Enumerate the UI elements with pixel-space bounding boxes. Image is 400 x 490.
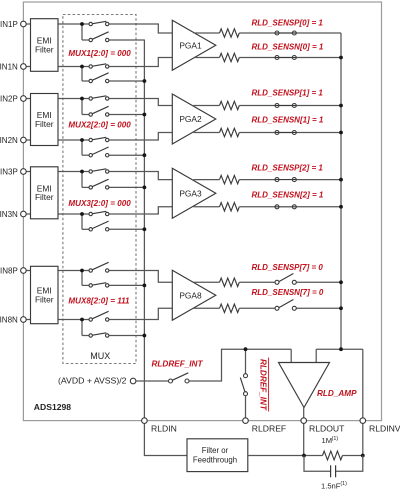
- op-amp PGA8: [172, 270, 216, 320]
- switch MUX3 N input (closed): [89, 211, 109, 215]
- wire RLDREF node to switch: [245, 349, 247, 374]
- wire EMI out N row channel 2: [58, 139, 90, 141]
- switch MUX3 P RLD (open): [89, 179, 109, 189]
- wire resistor to switch (SENSN1): [239, 57, 275, 59]
- Filter or Feedthrough box: [187, 439, 248, 472]
- op-amp PGA3: [172, 168, 216, 218]
- wire RLD P switch to RLDIN rail channel 3: [108, 186, 144, 188]
- resistor RLD_SENSP channel 8: [220, 278, 240, 286]
- switch RLDREF_INT (open): [169, 373, 190, 383]
- svg-text:RLDREF: RLDREF: [252, 424, 286, 434]
- switch RLD_SENSP[0] (closed): [275, 31, 297, 35]
- junction rail / MUX8 P RLD row: [143, 284, 147, 288]
- wire IN1N to EMI filter: [23, 66, 30, 68]
- wire RLD P switch to RLDIN rail channel 8: [108, 284, 144, 286]
- wire RLD_AMP output to RLDOUT pin: [303, 408, 305, 421]
- op-amp RLD_AMP: [279, 363, 330, 408]
- resistor RLD_SENSN channel 3: [220, 203, 240, 211]
- EMI filter channel 8: [31, 266, 59, 323]
- wire RLD row P channel 2: [82, 114, 90, 116]
- junction bus / SENSN channel 1: [339, 56, 343, 60]
- wire IN3P to EMI filter: [23, 171, 30, 173]
- wire RLD row N channel 1: [82, 80, 90, 82]
- wire N switch to PGA1 lower input: [108, 58, 172, 67]
- wire RLD row P channel 1: [82, 39, 90, 41]
- svg-text:ADS1298: ADS1298: [34, 402, 71, 412]
- svg-text:MUX1[2:0] = 000: MUX1[2:0] = 000: [68, 49, 131, 58]
- svg-text:RLD_SENSN[1] = 1: RLD_SENSN[1] = 1: [252, 116, 324, 125]
- svg-text:RLD_SENSP[1] = 1: RLD_SENSP[1] = 1: [252, 89, 324, 98]
- switch MUX2 P input (closed): [89, 96, 109, 100]
- switch RLD_SENSN[1] (closed): [275, 131, 297, 135]
- op-amp PGA1: [172, 20, 216, 70]
- svg-text:1M: 1M: [322, 436, 333, 445]
- svg-text:Feedthrough: Feedthrough: [193, 456, 237, 465]
- switch RLD_SENSP[7] (open): [275, 274, 296, 285]
- pin IN8N: [21, 317, 27, 323]
- wire PGA2 output to resistor (SENSN): [194, 132, 220, 134]
- svg-text:PGA8: PGA8: [179, 291, 202, 301]
- junction bus / SENSN channel 8: [339, 306, 343, 310]
- junction RLDREF node: [244, 347, 248, 351]
- svg-text:RLD_SENSP[0] = 1: RLD_SENSP[0] = 1: [252, 19, 324, 28]
- wire switch to bus (SENSP2): [296, 105, 341, 107]
- wire EMI out P row channel 3: [58, 171, 90, 173]
- pin IN8P: [21, 268, 27, 274]
- wire capacitor right lead: [336, 456, 363, 472]
- wire switch to bus (SENSN2): [296, 132, 341, 134]
- svg-text:PGA3: PGA3: [179, 188, 202, 198]
- svg-text:Filter or: Filter or: [202, 446, 229, 455]
- ADS1298 chip outline: [23, 2, 381, 421]
- wire IN1P to EMI filter: [23, 23, 30, 25]
- wire IN3N to EMI filter: [23, 213, 30, 215]
- terminal (AVDD+AVSS)/2: [130, 378, 136, 384]
- pin RLDIN: [142, 418, 148, 424]
- EMI filter channel 3: [31, 167, 59, 219]
- resistor RLD_SENSN channel 2: [220, 128, 240, 136]
- svg-text:IN1P: IN1P: [0, 20, 18, 29]
- label RLDREF_INT-bar (vertical): [259, 358, 269, 412]
- wire IN8N to EMI filter: [23, 319, 30, 321]
- wire switch to RLDREF pin: [245, 396, 247, 421]
- pin IN2N: [21, 137, 27, 143]
- resistor RLD_SENSP channel 3: [220, 175, 240, 183]
- switch MUX1 P input (closed): [89, 21, 109, 25]
- switch MUX8 N RLD (closed): [89, 333, 109, 337]
- junction rail / MUX2 N RLD row: [143, 153, 147, 157]
- wire RLD row N channel 3: [82, 228, 90, 230]
- wire PGA1 output to resistor (SENSP): [194, 32, 220, 34]
- pin RLDREF: [243, 418, 249, 424]
- wire RLDOUT pin down: [303, 421, 305, 456]
- switch MUX2 N RLD (open): [89, 147, 109, 157]
- svg-text:IN3N: IN3N: [0, 210, 18, 219]
- wire AVDD-AVSS terminal to switch: [136, 380, 169, 382]
- wire branch IN2N to RLD row: [81, 140, 83, 155]
- capacitor 1.5nF: [330, 465, 332, 477]
- junction rail / MUX3 P RLD row: [143, 186, 147, 190]
- wire switch to bus (SENSN1): [296, 57, 341, 59]
- svg-text:RLD_SENSN[0] = 1: RLD_SENSN[0] = 1: [252, 43, 324, 52]
- wire RLDIN rail vertical: [143, 40, 145, 421]
- wire branch IN8N to RLD row: [81, 320, 83, 336]
- wire branch IN8P to RLD row: [81, 271, 83, 286]
- pin IN1P: [21, 21, 27, 27]
- wire P switch to PGA2 upper input: [108, 99, 172, 106]
- svg-text:IN8P: IN8P: [0, 266, 18, 275]
- junction bus / SENSP channel 3: [339, 178, 343, 182]
- wire feedback to RLDINV: [362, 349, 364, 420]
- wire resistor to switch (SENSP3): [239, 179, 275, 181]
- svg-text:Filter: Filter: [35, 294, 54, 304]
- resistor RLD_SENSN channel 8: [220, 304, 240, 312]
- wire PGA3 output to resistor (SENSN): [194, 206, 220, 208]
- wire PGA8 output to resistor (SENSP): [194, 281, 220, 283]
- svg-text:IN2P: IN2P: [0, 94, 18, 103]
- svg-text:(AVDD + AVSS)/2: (AVDD + AVSS)/2: [58, 376, 127, 386]
- wire resistor to switch (SENSN3): [239, 206, 275, 208]
- wire EMI out N row channel 1: [58, 66, 90, 68]
- junction IN2P branch: [80, 97, 84, 101]
- wire branch IN3N to RLD row: [81, 214, 83, 229]
- wire RLDINV pin down: [362, 421, 364, 456]
- svg-text:IN1N: IN1N: [0, 62, 18, 71]
- wire resistor to switch (SENSP1): [239, 32, 275, 34]
- junction IN3P branch: [80, 170, 84, 174]
- wire op-amp noninverting input: [290, 349, 292, 362]
- svg-text:PGA2: PGA2: [179, 114, 202, 124]
- svg-text:RLDREF_INT: RLDREF_INT: [259, 359, 268, 411]
- wire PGA1 output to resistor (SENSN): [194, 57, 220, 59]
- junction bus / SENSN channel 3: [339, 205, 343, 209]
- resistor RLD_SENSP channel 1: [220, 29, 240, 37]
- junction RLDOUT node: [302, 454, 306, 458]
- pin IN1N: [21, 64, 27, 70]
- junction IN3N branch: [80, 212, 84, 216]
- svg-text:MUX: MUX: [90, 351, 110, 361]
- wire RLD row N channel 8: [82, 335, 90, 337]
- wire resistor to switch (SENSP2): [239, 105, 275, 107]
- wire P switch to PGA1 upper input: [108, 24, 172, 33]
- wire RLD N switch to RLDIN rail channel 8: [108, 335, 144, 337]
- switch RLD_SENSP[1] (closed): [275, 104, 297, 108]
- wire bus to inverting input: [315, 349, 317, 362]
- wire RLD row P channel 8: [82, 284, 90, 286]
- switch RLD_SENSN[0] (closed): [275, 56, 297, 60]
- EMI filter channel 1: [31, 19, 59, 72]
- junction IN2N branch: [80, 138, 84, 142]
- wire EMI out P row channel 1: [58, 23, 90, 25]
- op-amp PGA2: [172, 94, 216, 144]
- junction bus / SENSP channel 8: [339, 280, 343, 284]
- pin IN3P: [21, 169, 27, 175]
- wire switch to bus (SENSN3): [296, 206, 341, 208]
- wire P switch to PGA3 upper input: [108, 172, 172, 180]
- junction IN1P branch: [80, 22, 84, 26]
- junction RLDINV node: [361, 454, 365, 458]
- wire switch to bus (SENSP8): [296, 281, 341, 283]
- wire branch IN1N to RLD row: [81, 67, 83, 82]
- pin IN3N: [21, 211, 27, 217]
- switch RLD_SENSP[2] (closed): [275, 178, 297, 182]
- wire resistor to RLDINV node: [342, 455, 363, 457]
- wire RLD N switch to RLDIN rail channel 2: [108, 154, 144, 156]
- switch RLD_SENSN[2] (closed): [275, 205, 297, 209]
- wire branch IN3P to RLD row: [81, 172, 83, 188]
- switch RLD_SENSN[7] (open): [275, 300, 296, 311]
- junction IN8N branch: [80, 318, 84, 322]
- wire inverting node horizontal: [316, 348, 363, 350]
- switch MUX1 N RLD (open): [89, 73, 109, 83]
- svg-text:PGA1: PGA1: [179, 40, 202, 50]
- svg-text:1.5nF: 1.5nF: [321, 482, 341, 490]
- pin RLDOUT: [301, 418, 307, 424]
- svg-text:Filter: Filter: [35, 44, 54, 54]
- wire EMI out N row channel 3: [58, 213, 90, 215]
- wire EMI out N row channel 8: [58, 319, 90, 321]
- wire N switch to PGA2 lower input: [108, 133, 172, 141]
- svg-text:RLDIN: RLDIN: [151, 424, 177, 434]
- wire filter box to RLDOUT node: [248, 455, 304, 457]
- junction bus / SENSN channel 2: [339, 131, 343, 135]
- svg-text:RLDOUT: RLDOUT: [309, 424, 345, 434]
- wire switch to bus (SENSP1): [296, 32, 341, 34]
- wire IN2N to EMI filter: [23, 139, 30, 141]
- wire resistor to switch (SENSP8): [239, 281, 275, 283]
- wire P switch to PGA8 upper input: [108, 271, 172, 283]
- svg-text:IN3P: IN3P: [0, 167, 18, 176]
- wire RLD sense bus vertical: [340, 33, 342, 349]
- switch MUX1 N input (closed): [89, 64, 109, 68]
- wire EMI out P row channel 2: [58, 98, 90, 100]
- switch MUX8 P input (open): [89, 262, 109, 272]
- svg-text:MUX8[2:0] = 111: MUX8[2:0] = 111: [68, 296, 130, 305]
- junction rail / MUX1 N RLD row: [143, 79, 147, 83]
- svg-text:RLDINV: RLDINV: [369, 424, 400, 434]
- wire PGA3 output to resistor (SENSP): [194, 179, 220, 181]
- wire IN8P to EMI filter: [23, 270, 30, 272]
- wire RLDREF_INT switch to op-amp input: [189, 349, 292, 381]
- svg-text:(1): (1): [332, 436, 339, 442]
- switch MUX1 P RLD (open): [89, 32, 109, 42]
- junction bus / op-amp inverting input: [339, 347, 343, 351]
- switch RLDREF_INT-bar (open): [240, 374, 247, 396]
- pin IN2P: [21, 96, 27, 102]
- svg-text:RLD_AMP: RLD_AMP: [317, 389, 357, 398]
- switch MUX8 P RLD (closed): [89, 283, 109, 287]
- svg-text:RLDREF_INT: RLDREF_INT: [152, 360, 204, 369]
- svg-text:(1): (1): [340, 481, 347, 487]
- wire switch to bus (SENSN8): [296, 307, 341, 309]
- wire RLD P switch to RLDIN rail (rail top corner): [108, 39, 144, 41]
- svg-text:RLD_SENSN[7] = 0: RLD_SENSN[7] = 0: [252, 288, 324, 297]
- svg-text:IN8N: IN8N: [0, 315, 18, 324]
- junction rail / MUX8 N RLD row: [143, 334, 147, 338]
- wire RLD row P channel 3: [82, 186, 90, 188]
- wire EMI out P row channel 8: [58, 270, 90, 272]
- switch MUX3 P input (closed): [89, 169, 109, 173]
- resistor RLD_SENSN channel 1: [220, 53, 240, 61]
- wire RLD N switch to RLDIN rail channel 1: [108, 80, 144, 82]
- wire PGA8 output to resistor (SENSN): [194, 307, 220, 309]
- svg-text:RLD_SENSP[2] = 1: RLD_SENSP[2] = 1: [252, 164, 324, 173]
- wire RLD N switch to RLDIN rail channel 3: [108, 228, 144, 230]
- wire IN2P to EMI filter: [23, 98, 30, 100]
- wire RLDOUT node to resistor: [304, 455, 323, 457]
- svg-text:Filter: Filter: [35, 192, 54, 202]
- wire N switch to PGA3 lower input: [108, 207, 172, 214]
- svg-text:RLD_SENSP[7] = 0: RLD_SENSP[7] = 0: [252, 263, 324, 272]
- svg-text:RLD_SENSN[2] = 1: RLD_SENSN[2] = 1: [252, 191, 324, 200]
- wire PGA2 output to resistor (SENSP): [194, 105, 220, 107]
- switch MUX8 N input (open): [89, 311, 109, 321]
- svg-text:MUX2[2:0] = 000: MUX2[2:0] = 000: [68, 121, 131, 130]
- wire resistor to switch (SENSN2): [239, 132, 275, 134]
- wire N switch to PGA8 lower input: [108, 308, 172, 319]
- wire branch IN1P to RLD row: [81, 24, 83, 40]
- junction IN1N branch: [80, 65, 84, 69]
- resistor 1M feedback: [323, 451, 343, 460]
- svg-text:Filter: Filter: [35, 119, 54, 129]
- pin RLDINV: [360, 418, 366, 424]
- junction rail / MUX2 P RLD row: [143, 113, 147, 117]
- svg-text:IN2N: IN2N: [0, 136, 18, 145]
- junction rail / MUX3 N RLD row: [143, 227, 147, 231]
- junction IN8P branch: [80, 269, 84, 273]
- wire RLD row N channel 2: [82, 154, 90, 156]
- wire capacitor left lead: [304, 456, 330, 472]
- MUX dashed boundary box: [63, 15, 136, 364]
- wire resistor to switch (SENSN8): [239, 307, 275, 309]
- svg-text:MUX3[2:0] = 000: MUX3[2:0] = 000: [68, 199, 131, 208]
- wire RLDIN pin to filter box: [144, 421, 187, 456]
- switch MUX2 P RLD (open): [89, 106, 109, 116]
- resistor RLD_SENSP channel 2: [220, 101, 240, 109]
- junction bus / SENSP channel 2: [339, 104, 343, 108]
- wire switch to bus (SENSP3): [296, 179, 341, 181]
- wire RLD P switch to RLDIN rail channel 2: [108, 114, 144, 116]
- EMI filter channel 2: [31, 94, 59, 146]
- switch MUX3 N RLD (open): [89, 221, 109, 231]
- switch MUX2 N input (closed): [89, 137, 109, 141]
- wire branch IN2P to RLD row: [81, 99, 83, 115]
